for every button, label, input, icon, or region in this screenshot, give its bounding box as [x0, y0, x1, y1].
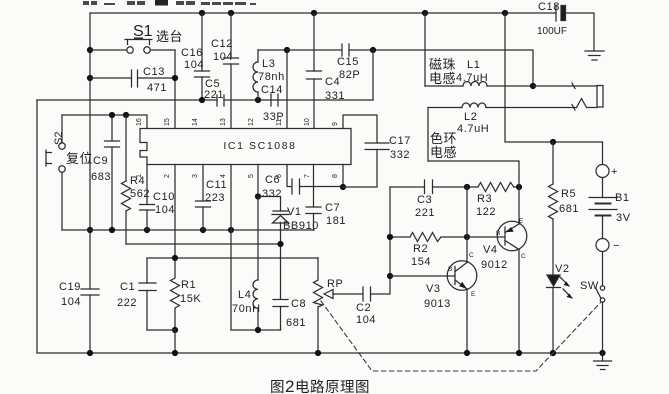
node: dot L4 bottom: [255, 327, 261, 333]
svg-text:C: C: [521, 253, 526, 260]
svg-text:104: 104: [356, 314, 376, 326]
svg-text:9012: 9012: [481, 259, 508, 271]
wire: L2 bottom route to V4 emitter node: [428, 161, 519, 187]
svg-text:V1: V1: [287, 206, 302, 218]
pin 10: [304, 118, 311, 126]
pin 2: [164, 174, 171, 178]
svg-text:104: 104: [213, 51, 233, 63]
wire: bottom ground rail: [37, 352, 604, 354]
svg-text:8: 8: [332, 174, 339, 178]
svg-text:154: 154: [411, 256, 431, 268]
svg-text:471: 471: [147, 82, 167, 94]
node: dots x=467 column: [464, 184, 470, 240]
pin 4: [220, 174, 227, 178]
node: dot R5 top: [550, 139, 556, 145]
svg-text:15: 15: [164, 118, 171, 126]
ground (bottom right): [594, 353, 612, 370]
capacitor C6 (pin 6 series): [262, 165, 343, 201]
capacitor C11 (on pin 3): [196, 165, 228, 231]
capacitor C12: [211, 13, 239, 128]
capacitor C2 (series, RP wiper to V3 base net): [356, 187, 390, 326]
capacitor C4: [307, 13, 346, 128]
wire: earphone jack top wire with tick: [533, 83, 597, 89]
capacitor C14 (series on y=100 between L3 and pin11): [261, 84, 284, 123]
svg-text:221: 221: [204, 89, 224, 101]
svg-text:RP: RP: [327, 278, 343, 290]
svg-text:104: 104: [184, 59, 204, 71]
pin 14: [192, 118, 199, 126]
battery B1 3V: [589, 142, 631, 286]
wire: C1/R1 bottom bus to ground rail: [147, 330, 175, 353]
capacitor C9: [91, 115, 120, 230]
svg-text:C12: C12: [211, 38, 233, 50]
pin 16: [136, 118, 143, 126]
svg-text:B: B: [448, 266, 452, 273]
svg-text:C7: C7: [325, 202, 340, 214]
capacitor C16: [181, 13, 210, 100]
svg-text:+: +: [611, 166, 618, 178]
svg-text:104: 104: [61, 296, 81, 308]
capacitor C5 (in series on y=100 bus): [204, 78, 224, 106]
svg-text:181: 181: [326, 215, 346, 227]
svg-text:S1: S1: [133, 23, 153, 40]
capacitor C15 (series on y=50): [337, 44, 360, 81]
capacitor C18: [537, 1, 567, 37]
capacitor C8: [273, 298, 306, 330]
svg-text:C6: C6: [265, 174, 280, 186]
svg-text:332: 332: [262, 188, 282, 200]
capacitor C17 (pin9 to pin8): [343, 115, 411, 187]
node: dots R1 top and bottom: [172, 255, 178, 333]
cropped text row at very top: [83, 0, 256, 6]
svg-text:L2: L2: [464, 111, 477, 123]
node: dots on y=115 bus: [109, 112, 129, 118]
resistor R3: [467, 183, 519, 219]
node: dot L3 top / pin11: [284, 47, 290, 53]
svg-text:−: −: [613, 240, 620, 252]
node: dot V1 bottom / control bus: [277, 241, 283, 247]
svg-text:16: 16: [136, 118, 143, 126]
pin 8: [332, 174, 339, 178]
svg-text:681: 681: [286, 317, 306, 329]
svg-text:复位: 复位: [66, 151, 93, 166]
node: dots on y=100 bus: [199, 97, 261, 103]
caption 图2电路原理图: [270, 377, 370, 394]
wire: audio bus y=258 from C1 to RP: [147, 257, 318, 259]
wire: pin 5 down / node to V1: [258, 165, 281, 212]
svg-text:C13: C13: [143, 66, 165, 78]
svg-text:R5: R5: [561, 188, 576, 200]
svg-text:L3: L3: [262, 58, 275, 70]
pin 7: [304, 174, 311, 178]
resistor R1: [171, 258, 202, 330]
pin 11: [276, 119, 283, 126]
wire: dashed mechanical link RP to SW: [321, 301, 601, 371]
svg-text:C15: C15: [337, 56, 359, 68]
resistor R4: [122, 115, 151, 244]
wire: supply rail from top to R5/B1: [505, 13, 603, 142]
svg-text:V2: V2: [555, 263, 570, 275]
wire: S1/C13 right side down to IC pin 15: [174, 50, 176, 128]
svg-text:9: 9: [332, 122, 339, 126]
wire: C3/R3 node down to V4 base node: [466, 187, 468, 237]
node: dot y=50 x=373: [370, 47, 376, 53]
svg-text:V3: V3: [426, 283, 441, 295]
resistor R2: [390, 233, 467, 269]
node: dot pin5: [255, 193, 261, 199]
svg-text:3: 3: [192, 174, 199, 178]
svg-text:C11: C11: [206, 179, 227, 191]
pin 13: [220, 118, 227, 126]
svg-text:4.7uH: 4.7uH: [457, 123, 489, 135]
wire: L4/C8 bottom bus: [231, 329, 281, 331]
node: top rail junction dots: [199, 10, 508, 16]
capacitor C7 (on pin 7): [306, 165, 346, 231]
pin 6: [276, 174, 283, 178]
capacitor C10 (on pin 1): [140, 165, 176, 231]
svg-text:7: 7: [304, 174, 311, 178]
svg-text:C8: C8: [291, 298, 306, 310]
varactor V1 BB910: [272, 206, 319, 299]
svg-text:E: E: [519, 218, 524, 225]
inductor L4: [232, 197, 261, 331]
svg-text:B1: B1: [615, 192, 630, 204]
svg-text:图2电路原理图: 图2电路原理图: [270, 377, 370, 394]
node: dots on x=92 rail: [87, 47, 93, 233]
wire: outer left rail: [36, 100, 38, 353]
wire: main horizontal bus y=100: [37, 99, 373, 101]
svg-text:2: 2: [164, 174, 171, 178]
wire: varactor control bus y=244: [126, 243, 281, 245]
wire: y=50 bus from L3 to C15 to corner x=533: [287, 50, 533, 86]
wire: V4 base wire: [467, 236, 505, 238]
capacitor C3 (series on y=187): [390, 180, 467, 219]
svg-text:3V: 3V: [616, 212, 631, 224]
svg-text:E: E: [471, 291, 476, 298]
svg-text:82P: 82P: [339, 69, 360, 81]
potentiometer RP: [314, 258, 363, 353]
svg-text:L4: L4: [238, 289, 251, 301]
wire: V3 base wire: [390, 275, 455, 277]
switch S2 (复位 reset): [46, 115, 93, 230]
svg-text:C14: C14: [261, 84, 283, 96]
svg-text:4.7uH: 4.7uH: [456, 72, 488, 84]
pin 12: [248, 118, 255, 126]
capacitor C13: [90, 66, 175, 94]
svg-text:13: 13: [220, 118, 227, 126]
svg-text:15K: 15K: [180, 293, 201, 305]
inductor L2 (色环电感 color-ring inductor): [428, 103, 577, 161]
svg-text:78nh: 78nh: [258, 71, 285, 83]
svg-text:100UF: 100UF: [537, 26, 567, 37]
wire: top supply rail: [90, 13, 594, 50]
svg-text:332: 332: [390, 149, 410, 161]
svg-text:C18: C18: [538, 1, 560, 13]
svg-text:122: 122: [476, 206, 496, 218]
svg-text:C17: C17: [389, 135, 411, 147]
svg-text:IC1 SC1088: IC1 SC1088: [223, 140, 296, 152]
wire: ground bus y=230: [62, 229, 314, 231]
svg-text:R1: R1: [181, 279, 196, 291]
wire: y=115 bus to IC pin16: [62, 115, 147, 128]
node: dot C13 right: [172, 75, 178, 81]
svg-text:10: 10: [304, 118, 311, 126]
svg-text:C3: C3: [417, 194, 432, 206]
svg-text:221: 221: [415, 207, 435, 219]
pin 3: [192, 174, 199, 178]
resistor R5: [549, 142, 580, 275]
pin 9: [332, 122, 339, 126]
pin 1: [136, 174, 143, 178]
svg-text:色环: 色环: [430, 131, 457, 146]
svg-text:电感: 电感: [430, 145, 457, 160]
wire: vertical rail x=92 from top rail down to ground rail: [89, 13, 91, 353]
svg-text:4: 4: [220, 174, 227, 178]
svg-text:R2: R2: [413, 243, 428, 255]
svg-text:V4: V4: [483, 244, 498, 256]
capacitor C19: [59, 281, 99, 308]
svg-text:222: 222: [117, 297, 137, 309]
svg-text:电感: 电感: [429, 71, 456, 86]
svg-text:S2: S2: [53, 132, 65, 145]
LED V2: [547, 263, 573, 353]
ground (top right, C18): [585, 51, 604, 60]
svg-text:SW: SW: [580, 280, 599, 292]
svg-text:C: C: [469, 252, 474, 259]
switch S1 (选台 channel select): [90, 23, 183, 53]
svg-text:C16: C16: [181, 47, 203, 59]
svg-text:223: 223: [205, 192, 225, 204]
node: dot L1 right: [530, 83, 536, 89]
transistor V3 9013: [424, 237, 477, 353]
wire: pin 2 down through to R1 node: [174, 165, 176, 259]
svg-text:选台: 选台: [156, 29, 183, 44]
svg-text:B: B: [496, 230, 500, 237]
node: dots on y=230 bus: [109, 227, 234, 233]
svg-text:681: 681: [559, 203, 579, 215]
svg-text:C1: C1: [120, 281, 135, 293]
wire: C15 loop down to y=100 bus: [372, 50, 374, 100]
svg-text:C4: C4: [325, 76, 340, 88]
svg-text:70nH: 70nH: [232, 303, 261, 315]
earphone jack: [597, 86, 603, 108]
switch SW: [580, 280, 605, 353]
node: dots on V3 base rail x=390: [387, 234, 393, 279]
svg-text:11: 11: [276, 119, 283, 126]
svg-text:14: 14: [192, 118, 199, 126]
svg-text:1: 1: [136, 174, 143, 178]
svg-text:12: 12: [248, 118, 255, 126]
transistor V4 9012: [481, 187, 527, 353]
node: dots on ground rail: [87, 350, 606, 356]
wire: pin11 vertical: [286, 50, 288, 128]
svg-text:C2: C2: [356, 302, 371, 314]
wire: jack bottom wire with tick and peak: [572, 99, 597, 111]
svg-text:C10: C10: [153, 191, 175, 203]
svg-text:C19: C19: [59, 281, 81, 293]
capacitor C1: [117, 258, 156, 330]
svg-text:683: 683: [91, 171, 111, 183]
node: dot pin 8: [340, 184, 346, 190]
svg-text:R3: R3: [477, 193, 492, 205]
svg-text:磁珠: 磁珠: [429, 57, 456, 72]
wire: pin 4 down to L4/C8 bottom bus: [230, 165, 232, 331]
svg-text:5: 5: [248, 174, 255, 178]
op-amp U1: IC1 SC1088 body: [140, 129, 351, 165]
pin 5: [248, 174, 255, 178]
node: dot x=519 R3 right: [516, 184, 522, 190]
svg-text:104: 104: [155, 204, 175, 216]
svg-text:C9: C9: [93, 155, 108, 167]
svg-text:9013: 9013: [424, 298, 451, 310]
pin 15: [164, 118, 171, 126]
wire: pin 8 down to C17 bottom: [342, 165, 344, 188]
inductor L1 (磁珠电感 ferrite bead): [425, 13, 533, 86]
inductor L3: [253, 50, 287, 100]
svg-text:L1: L1: [467, 59, 480, 71]
